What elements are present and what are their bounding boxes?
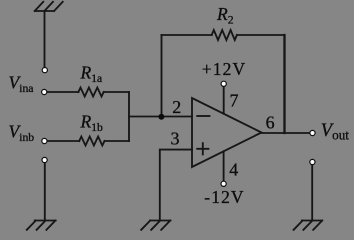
svg-text:4: 4 [229,159,238,179]
svg-text:2: 2 [172,97,181,117]
svg-text:6: 6 [266,113,275,133]
svg-text:-12V: -12V [204,187,244,207]
svg-text:7: 7 [230,91,239,111]
svg-text:3: 3 [171,128,180,148]
svg-text:+12V: +12V [202,59,246,79]
